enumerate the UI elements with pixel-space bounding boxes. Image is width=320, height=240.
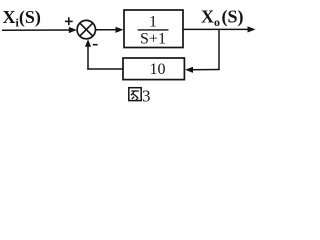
arrowhead output bbox=[248, 26, 256, 32]
block H1: 10 bbox=[123, 58, 184, 80]
wire feedback takeoff vertical bbox=[218, 29, 220, 69]
arrowhead into summing junction bbox=[69, 27, 77, 33]
wire summing junction to block G bbox=[96, 29, 118, 31]
arrowhead into block H bbox=[185, 67, 193, 73]
wire feedback vertical up bbox=[87, 45, 89, 70]
svg-text:S+1: S+1 bbox=[140, 31, 166, 48]
wire block H to below summing junction bbox=[87, 68, 123, 70]
summing junction U1 (circle with X) bbox=[77, 20, 95, 38]
svg-text:Xo(S): Xo(S) bbox=[201, 7, 244, 30]
caption glyph "图" drawn as strokes bbox=[129, 88, 141, 101]
svg-text:Xi(S): Xi(S) bbox=[3, 7, 41, 30]
plus sign at summing input bbox=[65, 17, 73, 25]
svg-text:3: 3 bbox=[142, 86, 151, 105]
arrowhead into summing junction bottom bbox=[85, 39, 91, 47]
wire feedback upper horizontal into block H bbox=[191, 69, 220, 71]
wire output line bbox=[183, 28, 250, 30]
wire input line into summing junction bbox=[2, 29, 71, 31]
svg-text:10: 10 bbox=[150, 61, 166, 78]
block G1: 1/(S+1) bbox=[124, 10, 183, 48]
svg-text:1: 1 bbox=[149, 14, 157, 31]
minus sign at feedback input bbox=[93, 44, 98, 46]
fraction bar bbox=[138, 29, 169, 31]
arrowhead into block G bbox=[116, 27, 124, 33]
